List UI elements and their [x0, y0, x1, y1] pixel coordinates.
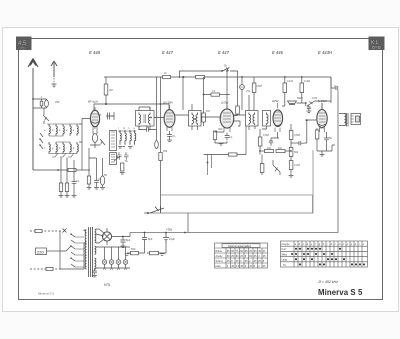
tube V5 E443H — [317, 103, 327, 132]
svg-text:5k: 5k — [224, 64, 227, 68]
bandswitch block SW2 — [110, 153, 117, 165]
IF transformer T2 — [189, 104, 202, 130]
svg-text:p: p — [85, 231, 87, 234]
ground G11 — [125, 254, 130, 256]
resistor R15 on return — [229, 153, 238, 156]
svg-text:0,15: 0,15 — [319, 126, 325, 130]
mains input P1 dashed — [30, 230, 62, 232]
corner stamp left — [16, 37, 32, 51]
capacitor C9 mixer grid — [143, 127, 152, 131]
wire T2 out to V3 — [198, 117, 222, 130]
svg-text:0,1M: 0,1M — [287, 79, 293, 83]
arrows chassis — [103, 268, 127, 270]
svg-text:25: 25 — [236, 260, 239, 263]
capacitor C7 cathode — [94, 178, 99, 186]
svg-text:s: s — [363, 243, 365, 246]
svg-text:b: b — [299, 243, 301, 246]
power transformer HT winding — [95, 229, 96, 243]
svg-text:45: 45 — [263, 265, 266, 268]
svg-text:90: 90 — [240, 250, 243, 253]
switch S10 on raised bus — [223, 68, 230, 72]
svg-text:4: 4 — [258, 255, 260, 258]
svg-text:0,2M: 0,2M — [294, 163, 300, 167]
power transformer TR mains core — [89, 227, 93, 277]
svg-text:25: 25 — [231, 255, 234, 258]
svg-text:Kurz: Kurz — [282, 248, 288, 251]
ground G6 — [167, 140, 172, 142]
wire vol chain — [290, 124, 292, 175]
node dot A21 — [183, 76, 185, 78]
ground G15 — [65, 196, 70, 198]
svg-text:75: 75 — [20, 46, 25, 51]
svg-text:Δ2W: Δ2W — [272, 99, 279, 103]
svg-text:k: k — [331, 243, 333, 246]
rectifier tube V6 — [102, 228, 111, 245]
svg-text:25: 25 — [227, 260, 230, 263]
svg-text:d: d — [307, 243, 309, 246]
svg-text:25: 25 — [258, 260, 261, 263]
svg-text:1k: 1k — [334, 84, 337, 88]
wire v5 cathode — [317, 132, 335, 151]
electrolytic C19 — [163, 233, 169, 244]
svg-text:25: 25 — [240, 255, 243, 258]
resistor R26 bleeder2 — [150, 251, 159, 254]
svg-text:e: e — [311, 243, 313, 246]
power transformer heater winding 1 — [95, 246, 96, 254]
node dot A15 — [259, 150, 261, 152]
svg-text:b: b — [52, 129, 54, 132]
wire gang riser a — [156, 77, 158, 140]
wire pickup — [273, 160, 280, 175]
resistor R11 V3 cathode — [213, 131, 216, 140]
svg-text:8µF: 8µF — [148, 237, 153, 241]
capacitor C21 ave — [72, 178, 77, 187]
svg-text:m: m — [123, 127, 125, 130]
svg-text:90: 90 — [249, 255, 252, 258]
svg-text:q: q — [355, 243, 357, 246]
svg-text:75: 75 — [236, 250, 239, 253]
svg-text:300: 300 — [218, 127, 223, 131]
capacitor C1 anode — [108, 112, 115, 120]
svg-text:220: 220 — [37, 249, 44, 254]
svg-text:+Ua: +Ua — [166, 228, 172, 232]
svg-text:h: h — [59, 147, 61, 150]
node dot A12 — [122, 236, 124, 238]
capacitor C18 filter2 — [142, 233, 147, 244]
power transformer primary winding — [85, 230, 86, 269]
contact letters — [44, 127, 135, 259]
svg-text:90: 90 — [231, 250, 234, 253]
wire coil bus right — [79, 124, 82, 170]
svg-text:250: 250 — [55, 100, 60, 104]
resistor R6 cathode — [87, 176, 90, 184]
ground G2 — [120, 173, 125, 175]
svg-text:0,1: 0,1 — [98, 113, 102, 117]
table T-left voltages — [215, 243, 268, 268]
coil group L1-L4 top row — [47, 124, 79, 136]
switch S4 agc — [100, 139, 105, 145]
svg-text:Röhre: Röhre — [216, 250, 223, 253]
svg-text:2.5: 2.5 — [236, 265, 240, 268]
mains input P2 dashed — [30, 268, 60, 270]
wire r20 — [282, 77, 285, 106]
node dot A22 — [226, 70, 228, 72]
wire screen riser — [106, 77, 114, 116]
svg-text:a: a — [295, 243, 297, 246]
svg-text:50: 50 — [104, 173, 107, 177]
node dot A10 — [305, 102, 307, 104]
ground G1 — [118, 147, 133, 149]
wire grid V4 down — [271, 132, 279, 138]
bandswitch block SW1 — [110, 131, 117, 151]
svg-text:d: d — [66, 129, 68, 132]
wire T1 to V2 — [139, 107, 164, 118]
svg-text:Anode: Anode — [216, 255, 224, 258]
svg-text:Gruppe: Gruppe — [282, 243, 291, 246]
svg-text:0,1: 0,1 — [172, 134, 176, 138]
wire V1 base wiring — [90, 131, 100, 148]
capacitor C13 V4 — [269, 138, 273, 146]
switch S6 tone — [297, 101, 332, 106]
svg-text:Lang: Lang — [282, 259, 288, 262]
svg-text:Kath.: Kath. — [216, 265, 222, 268]
svg-text:2: 2 — [245, 265, 247, 268]
wire bleeder — [127, 244, 166, 254]
capacitor C16 V5 cathode — [324, 135, 329, 143]
svg-text:16µF: 16µF — [169, 237, 175, 241]
svg-text:25: 25 — [245, 260, 248, 263]
svg-text:45: 45 — [254, 260, 257, 263]
coupling coil T3b — [263, 111, 271, 127]
wire drop x188 — [187, 213, 189, 233]
svg-text:Spannungsangaben: Spannungsangaben — [228, 244, 252, 248]
resistor R25 bleeder — [131, 251, 139, 254]
dial lamps LA1-LA4 — [102, 260, 128, 265]
svg-text:l: l — [335, 243, 336, 246]
svg-text:0,5M: 0,5M — [263, 133, 269, 137]
svg-text:r: r — [359, 243, 360, 246]
ground G14 — [59, 196, 64, 198]
resistor R21 — [300, 83, 304, 93]
resistor R13 af — [265, 149, 274, 152]
wire af return y154.5 — [204, 154, 247, 156]
output transformer T4 — [339, 113, 348, 127]
svg-text:8µF: 8µF — [126, 238, 131, 242]
svg-text:i: i — [327, 243, 328, 246]
switch S3 osc padder — [114, 156, 120, 161]
wire det branch pair — [208, 155, 212, 176]
svg-text:p: p — [351, 243, 353, 246]
resistor R28 ave divider — [65, 183, 68, 192]
svg-text:50: 50 — [329, 136, 332, 140]
ground G5 — [100, 188, 105, 190]
resistor R10 — [252, 83, 256, 93]
tube V1 E448 — [90, 107, 99, 131]
wire primary feeds — [60, 230, 87, 269]
wire R12 — [259, 129, 261, 155]
wire coil bus to tube1 — [82, 119, 90, 127]
resistor R19 — [260, 164, 264, 173]
switch S7 pickup input — [144, 207, 164, 215]
capacitor C12 coupling — [299, 141, 304, 145]
node dot A13 — [144, 232, 146, 234]
svg-text:k: k — [73, 147, 75, 150]
wire ave group — [61, 158, 74, 196]
gang capacitor CV1 — [155, 141, 159, 149]
node dot A23 — [160, 103, 162, 105]
svg-text:85: 85 — [245, 250, 248, 253]
resistor R27 ave divider — [59, 183, 62, 192]
svg-text:Mittel: Mittel — [282, 253, 288, 256]
wire r21 — [301, 77, 303, 103]
ground G4 — [94, 188, 99, 190]
svg-text:TA: TA — [283, 264, 286, 267]
svg-text:0,1: 0,1 — [98, 177, 102, 181]
resistor R17 vol mid — [289, 148, 293, 157]
wire V2 anode to T2 — [175, 77, 189, 115]
svg-text:Minerva S 5: Minerva S 5 — [38, 292, 54, 296]
svg-text:6: 6 — [240, 260, 242, 263]
wire lamp returns — [96, 264, 130, 268]
oscillator coil L9 — [118, 130, 136, 145]
IF transformer T1 — [136, 107, 155, 130]
resistor R4 on bottom run — [68, 168, 76, 171]
svg-text:q: q — [85, 243, 87, 246]
wire r19 — [261, 155, 263, 176]
wire feedback line y196 — [161, 195, 313, 213]
resistor R7 osc feed — [159, 153, 162, 161]
ground G17 — [306, 111, 311, 113]
node dot A17 — [194, 118, 196, 120]
switch S1 wave change — [43, 115, 49, 124]
resistor R16 vol top — [289, 131, 293, 140]
wire grid line y=104 — [94, 95, 169, 110]
svg-text:Jf = 452 kHz: Jf = 452 kHz — [317, 280, 338, 284]
resistor R3 screen feed — [104, 84, 108, 95]
node dot A4 — [150, 117, 152, 119]
wire raised bus y=71 — [180, 71, 238, 116]
svg-text:25k: 25k — [163, 149, 168, 153]
svg-text:m: m — [339, 243, 341, 246]
svg-text:f: f — [44, 147, 45, 150]
svg-text:l: l — [118, 127, 119, 130]
resistor R12 detector load — [258, 137, 262, 146]
capacitor C6 osc — [124, 152, 129, 160]
svg-text:5k: 5k — [125, 159, 128, 163]
svg-text:500: 500 — [131, 247, 136, 251]
capacitor C22 tone — [307, 105, 311, 111]
switch S8 mains — [63, 229, 67, 233]
wire B+ — [112, 233, 131, 237]
svg-text:Δ0,2BV: Δ0,2BV — [163, 101, 173, 105]
wire main HT bus y=77 — [104, 76, 331, 78]
antenna A2 short — [51, 61, 57, 88]
resistor R22 V5 grid — [315, 130, 319, 139]
voltage selector box VS — [36, 248, 47, 255]
ground G16 — [72, 196, 77, 198]
switch S2 band contacts — [39, 133, 43, 149]
svg-text:5000: 5000 — [297, 96, 303, 100]
svg-text:0,5M: 0,5M — [256, 84, 262, 88]
capacitor C14 shade — [288, 101, 297, 105]
svg-text:Δ/3W: Δ/3W — [221, 101, 229, 105]
tube V1 cathode parts: oval K1 — [92, 134, 97, 143]
resistor R5 osc grid — [121, 163, 124, 171]
wire ht return y232.5 — [130, 232, 338, 234]
node dot A18 — [221, 70, 223, 72]
wire V3 anode to T3 — [233, 115, 246, 126]
node dot A20 — [207, 162, 209, 164]
svg-text:45: 45 — [240, 265, 243, 268]
tube V4 E446 — [273, 103, 283, 132]
node dot A8 — [284, 76, 286, 78]
svg-text:g: g — [319, 243, 321, 246]
rectifier funnel — [96, 229, 104, 243]
wire gang riser b — [160, 77, 162, 152]
svg-text:g: g — [52, 147, 54, 150]
svg-text:n: n — [343, 243, 345, 246]
wire R8 — [204, 77, 212, 126]
wire selector link — [47, 250, 61, 252]
svg-text:85: 85 — [227, 250, 230, 253]
speaker LS — [351, 114, 361, 125]
svg-text:E 448: E 448 — [89, 50, 101, 55]
svg-text:8: 8 — [245, 255, 247, 258]
svg-text:25: 25 — [263, 255, 266, 258]
wire r22 — [316, 128, 318, 151]
svg-text:21: 21 — [263, 250, 266, 253]
svg-text:8: 8 — [263, 260, 265, 263]
wire tone drop — [305, 103, 307, 106]
svg-text:1k: 1k — [164, 71, 167, 75]
capacitor C10 V2 cathode — [167, 131, 172, 140]
resistor R23 mains — [35, 229, 42, 232]
IF transformer T3 — [246, 95, 259, 130]
node dot A7 — [241, 76, 243, 78]
svg-text:8: 8 — [231, 260, 233, 263]
svg-text:0,1: 0,1 — [212, 89, 216, 93]
tube V3 E447 — [220, 105, 234, 132]
wire cathode bottom — [89, 148, 103, 187]
capacitor C17 filter — [120, 237, 125, 246]
svg-text:o: o — [347, 243, 349, 246]
fuse F1 antenna — [40, 99, 43, 108]
switch S5 pickup — [273, 165, 280, 172]
resistor R1 feed — [236, 106, 240, 114]
svg-text:2: 2 — [227, 265, 229, 268]
svg-text:Minerva S 5: Minerva S 5 — [318, 288, 363, 297]
capacitor C11 V3 cathode — [225, 133, 230, 141]
svg-text:E 443H: E 443H — [318, 50, 333, 55]
tube V2 E447 — [164, 105, 175, 131]
wire return drop — [245, 126, 247, 155]
svg-text:700: 700 — [246, 89, 251, 93]
wire R9 to bus — [220, 94, 231, 96]
svg-text:N°5: N°5 — [104, 283, 110, 287]
capacitor C15 out — [332, 86, 338, 90]
ground G8 — [289, 176, 294, 178]
ground G7 — [219, 144, 224, 146]
node dot A2 — [32, 98, 34, 100]
ground G13 — [92, 275, 97, 277]
wire antenna bottom run — [33, 169, 90, 171]
svg-text:c: c — [303, 243, 305, 246]
border frame — [19, 39, 383, 300]
svg-text:0,5M: 0,5M — [294, 133, 300, 137]
resistor R20 V4 anode — [283, 83, 287, 93]
wire heater bus — [96, 247, 130, 260]
coil group L5-L8 bottom row — [49, 142, 78, 154]
svg-text:1M: 1M — [267, 146, 271, 150]
resistor R14 af — [276, 149, 285, 152]
resistor R18 vol low — [289, 161, 293, 170]
svg-text:i: i — [66, 147, 67, 150]
svg-text:2M: 2M — [109, 88, 113, 92]
resistor R24 mains2 — [46, 267, 53, 270]
selector contacts S9 — [60, 233, 84, 267]
table T-right switching — [281, 241, 368, 267]
value labels group — [41, 64, 337, 252]
resistor R8 agc — [202, 113, 206, 122]
resistor R2 on main bus — [163, 76, 171, 79]
wire c15 — [331, 77, 338, 95]
svg-text:Schirm: Schirm — [216, 260, 223, 263]
capacitor C20 heater — [92, 268, 97, 275]
svg-text:1M: 1M — [278, 146, 282, 150]
node dot A14 — [165, 232, 167, 234]
svg-text:50: 50 — [146, 125, 149, 129]
wire M1 riser — [241, 77, 243, 110]
wire det out — [255, 126, 267, 129]
ground G3 — [87, 188, 92, 190]
capacitor C5 osc — [117, 152, 122, 160]
svg-text:e: e — [73, 129, 75, 132]
wire C9 link — [139, 126, 157, 130]
wire V5 grid — [304, 103, 322, 143]
wire av line y213 — [148, 150, 313, 213]
ground G10 — [121, 246, 126, 248]
svg-text:0,1: 0,1 — [76, 179, 80, 183]
svg-text:1: 1 — [41, 95, 43, 99]
svg-text:0,05: 0,05 — [312, 96, 318, 100]
svg-text:f: f — [315, 243, 316, 246]
svg-text:o: o — [133, 127, 135, 130]
ground G12 — [160, 254, 165, 256]
svg-text:25: 25 — [254, 255, 257, 258]
svg-text:45: 45 — [258, 250, 261, 253]
svg-text:80: 80 — [227, 255, 230, 258]
svg-text:2: 2 — [258, 265, 260, 268]
wire V4 grid tap — [291, 142, 299, 144]
svg-text:25: 25 — [249, 250, 252, 253]
svg-text:E 447: E 447 — [162, 50, 174, 55]
node dot A11 — [184, 232, 186, 234]
svg-text:n: n — [128, 127, 130, 130]
node dot A1 — [105, 103, 107, 105]
electrolytic C8 — [100, 176, 104, 185]
svg-text:8F-5µA: 8F-5µA — [88, 100, 98, 104]
node dot A16 — [290, 150, 292, 152]
node dot A5 — [182, 76, 184, 78]
svg-text:45: 45 — [249, 265, 252, 268]
svg-text:E 447: E 447 — [218, 50, 230, 55]
svg-text:h: h — [323, 243, 325, 246]
wire antenna to coils — [33, 99, 47, 115]
svg-text:80: 80 — [236, 255, 239, 258]
resistor R2b on main bus — [196, 75, 205, 78]
node dot A6 — [203, 94, 205, 96]
antenna A1 — [28, 59, 38, 171]
